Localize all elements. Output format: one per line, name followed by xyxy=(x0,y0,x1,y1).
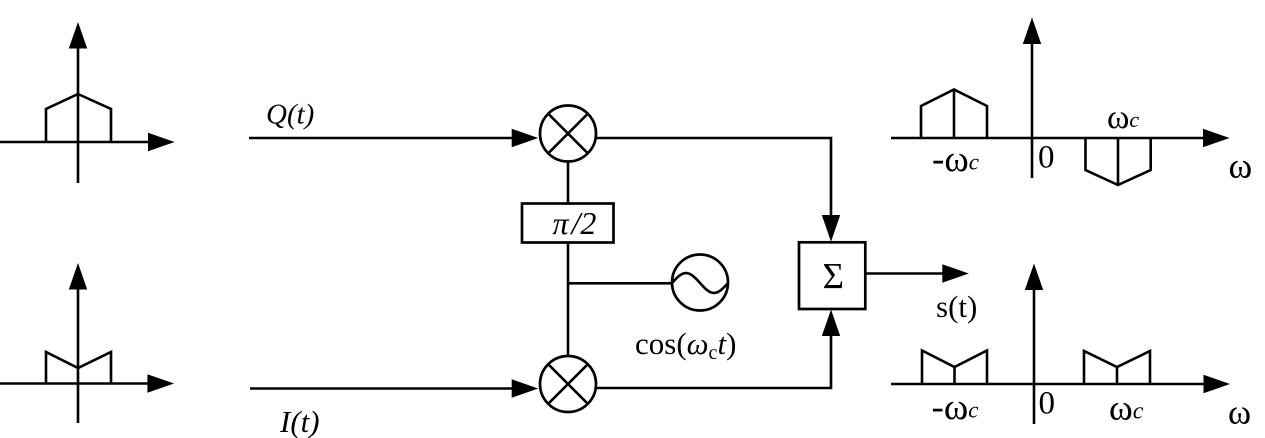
svg-text:ω: ω xyxy=(1229,146,1253,186)
svg-text:Q(t): Q(t) xyxy=(266,99,314,131)
svg-text:cos(ωct): cos(ωct) xyxy=(635,326,736,364)
svg-text:0: 0 xyxy=(1038,140,1055,176)
svg-text:-ωc: -ωc xyxy=(932,387,979,428)
svg-text:s(t): s(t) xyxy=(936,289,977,324)
svg-text:ωc: ωc xyxy=(1107,99,1139,136)
svg-text:ωc: ωc xyxy=(1109,388,1144,428)
svg-text:Σ: Σ xyxy=(823,257,845,298)
svg-text:-ωc: -ωc xyxy=(932,139,979,180)
svg-text:0: 0 xyxy=(1039,386,1056,422)
svg-text:π/2: π/2 xyxy=(553,205,597,241)
svg-text:I(t): I(t) xyxy=(279,404,320,438)
svg-text:ω: ω xyxy=(1228,392,1251,431)
